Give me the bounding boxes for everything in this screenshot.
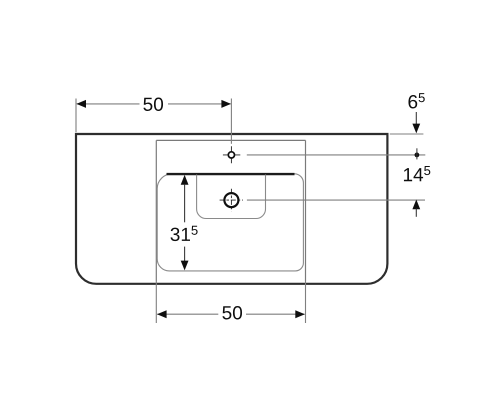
dimension bottom 50: right arrowhead [295, 310, 305, 318]
dimension 14.5: label [404, 166, 430, 181]
faucet dim dot [415, 153, 420, 158]
faucet hole centerline vertical (extension from top dim) [230, 99, 232, 144]
dimension 31.5: lower stem [184, 247, 186, 262]
dimension bottom 50: dim line [157, 313, 304, 315]
dimension top 50: label [143, 98, 163, 111]
faucet hole crosshair [223, 146, 240, 163]
bowl rim front thick edge [167, 173, 295, 175]
washbasin outer outline [76, 134, 387, 284]
dimension 6.5: arrowhead [412, 124, 420, 134]
faucet extension line to right with dot [247, 154, 425, 156]
dimension 31.5: label [171, 226, 198, 241]
bowl outline [157, 174, 303, 271]
bowl inner shelf outline [197, 175, 266, 219]
dimension 14.5: arrow stem [415, 209, 417, 217]
dimension top 50: left extension line [75, 99, 77, 133]
dimension 31.5: upper stem [184, 184, 186, 222]
faucet hole [228, 152, 234, 158]
drain extension line to right [247, 199, 425, 201]
basin recess left edge [155, 140, 157, 281]
dimension 6.5: arrow stem [415, 112, 417, 125]
dimension 31.5: lower arrowhead (down) [181, 261, 189, 271]
faucet dim dot stub [416, 148, 418, 159]
dimension top 50: left arrowhead [76, 100, 86, 108]
dimension 6.5: label [408, 93, 424, 108]
drain hole [224, 193, 238, 207]
dimension top 50: right arrowhead [221, 100, 231, 108]
dimension bottom 50: right extension line [305, 281, 307, 323]
dimension 6.5: extension of top edge [390, 133, 424, 135]
basin recess right edge [305, 140, 307, 281]
basin recess rectangle (top edge) [156, 139, 305, 141]
dimension top 50: dim line [77, 103, 231, 105]
dimension 14.5: arrowhead (up) [412, 200, 420, 210]
dimension bottom 50: left extension line [155, 281, 157, 323]
dimension 31.5: upper arrowhead (up) [181, 175, 189, 185]
drain hole crosshair [230, 189, 232, 212]
dimension bottom 50: label [222, 306, 242, 319]
dimension bottom 50: left arrowhead [157, 310, 167, 318]
